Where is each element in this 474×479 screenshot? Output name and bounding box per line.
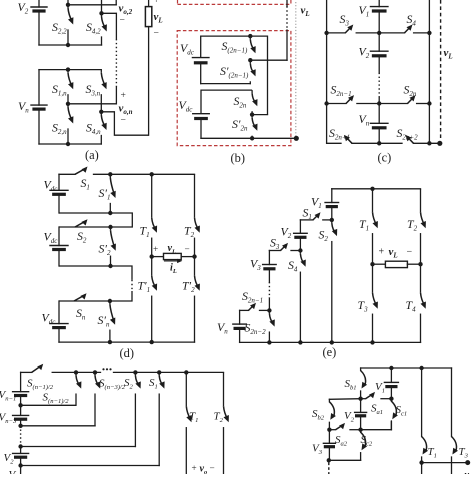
label Vdc module2 (d) xyxy=(44,230,59,246)
switch T3 (g) xyxy=(452,368,459,474)
switch T1 (g) xyxy=(422,368,429,474)
caption (e) xyxy=(323,345,337,359)
wire bottom rail (e) xyxy=(240,341,421,343)
node output terminal (g) xyxy=(465,460,470,465)
battery V1 (f) cropped xyxy=(9,466,21,479)
label Sc2 (g) xyxy=(361,434,373,448)
label T3 (e) xyxy=(358,298,369,314)
node cell-n left-leg midpoint xyxy=(66,102,70,106)
label Vn (c) xyxy=(359,112,370,128)
node S(n-3)/2 top (f) xyxy=(93,370,97,374)
node T1 top (f) xyxy=(184,370,188,374)
switch T1 (e) xyxy=(373,189,378,264)
label Vn (e) xyxy=(217,320,228,336)
switch S'2 (d) xyxy=(111,227,116,266)
label S2,2 xyxy=(52,20,67,36)
label T1 (f) xyxy=(189,411,198,425)
label T2 (e) xyxy=(407,217,418,233)
switch T2 (e) xyxy=(421,189,426,264)
label V(n-1) (f) xyxy=(0,389,16,403)
label S3,n xyxy=(86,82,101,98)
switch S2n-1 (e) xyxy=(249,303,257,311)
label + vL - (d) xyxy=(153,243,190,256)
label S2n-2 (e) xyxy=(245,321,267,337)
switch S2 (f) xyxy=(135,372,140,446)
node cell-n top junction xyxy=(66,67,70,71)
node load junctions (e) xyxy=(370,262,422,266)
label S1,n xyxy=(52,82,67,98)
node cell-n bottom junction xyxy=(66,142,70,146)
node bottom rail junctions (e) xyxy=(267,340,375,344)
label T1 (g) xyxy=(428,446,437,460)
switch S2n-2 (e) xyxy=(269,310,274,342)
wire bottom rail (d) xyxy=(59,341,195,343)
load resistor vL circuit (a) xyxy=(145,0,151,135)
switch S4 (c) xyxy=(405,25,413,33)
label S'n (d) xyxy=(98,313,110,329)
label + vL - load (a) xyxy=(154,0,163,39)
switch S2n-1 (c) xyxy=(346,95,354,103)
node V1 bottom (e) xyxy=(330,218,334,222)
label T'1 (d) xyxy=(138,279,151,295)
svg-text:(e): (e) xyxy=(323,345,337,359)
circuit (d) cascaded cells with H-bridge xyxy=(0,0,1,1)
svg-text:(d): (d) xyxy=(120,346,134,360)
label T'2 (d) xyxy=(182,279,195,295)
label S'1 (d) xyxy=(99,186,111,202)
node output terminal (b) xyxy=(294,136,299,141)
wire tap link (n-3) (f) xyxy=(21,425,95,427)
battery Vn (e) xyxy=(233,310,247,342)
wire module1 top rail (b) xyxy=(201,36,268,115)
svg-text:+: + xyxy=(379,247,385,258)
load rail + resistor vL (d) xyxy=(152,253,195,259)
switch S(n-1)/2 (f) xyxy=(32,364,44,373)
label S2,n xyxy=(52,121,67,137)
label V1 (e) xyxy=(311,195,322,211)
label S2n+1 (c) xyxy=(329,126,350,142)
switch Sb1 (g) xyxy=(361,368,368,399)
node S'2 bottom (d) xyxy=(108,264,112,268)
node tap 1 (f) xyxy=(18,463,22,467)
switch S1,n xyxy=(68,70,73,104)
node load rail junctions (d) xyxy=(150,254,197,258)
svg-text:−: − xyxy=(210,463,215,473)
circuit (a) cascaded H-bridge inverter xyxy=(0,0,1,1)
label V2 (c) xyxy=(359,45,370,61)
label vL (b) xyxy=(301,5,310,19)
label Vdc module n (d) xyxy=(42,311,57,327)
circuit (b) cascaded half-bridge modules xyxy=(0,0,1,1)
label S'(2n-1) xyxy=(220,64,249,80)
wire S2n-1 step rail (e) xyxy=(240,309,270,311)
label V3 (g) xyxy=(312,443,323,457)
wire dotted continuation (e) xyxy=(268,282,270,310)
node bottom rail junctions (d) xyxy=(108,340,154,344)
caption (c) xyxy=(378,151,392,165)
node S'1 bottom (d) xyxy=(108,211,112,215)
switch T'1 (d) xyxy=(152,257,157,343)
battery V2 (g) xyxy=(355,399,367,430)
switch T1 (f) xyxy=(186,372,191,474)
svg-text:−: − xyxy=(154,28,159,39)
battery Vn (cell n) xyxy=(31,70,47,144)
switch S1 (f) xyxy=(159,372,164,465)
label S2 (f) xyxy=(124,377,134,391)
label Vdc module1 (b) xyxy=(180,41,195,57)
label T3 (g) xyxy=(459,446,469,460)
node cell2 left-leg midpoint xyxy=(66,3,70,7)
switch Sa1 (g) xyxy=(366,392,376,399)
svg-text:−: − xyxy=(120,15,125,26)
battery Vdc module2 (b) xyxy=(193,114,210,139)
wire tap link 2 (f) xyxy=(21,446,136,448)
svg-text:(c): (c) xyxy=(378,151,392,165)
switch S2n+2 (c) xyxy=(406,135,414,143)
label V1 (g) xyxy=(375,381,385,395)
node tap (n-3) (f) xyxy=(18,424,22,428)
svg-text:(a): (a) xyxy=(85,148,99,162)
node S'2 top (d) xyxy=(108,225,112,229)
node mid rail1 junctions (c) xyxy=(324,31,431,35)
node S2 top (f) xyxy=(133,370,137,374)
wire module2 bottom rail + dotted jog (d) xyxy=(59,266,132,301)
circuit (c) ladder multilevel topology xyxy=(0,0,1,1)
label + vo - (f) xyxy=(192,463,215,476)
wire module2 top rail (b) xyxy=(201,90,252,114)
switch S'(2n-1) xyxy=(250,60,255,83)
switch Sn (d) xyxy=(74,293,87,301)
node V1 top (g) xyxy=(389,366,393,370)
node T1 top (g) xyxy=(419,366,423,370)
battery V(n-3) (f) xyxy=(13,405,29,426)
circuit (e) staircase multilevel with H-bridge xyxy=(0,0,1,1)
label S'(n-1)/2 (f) xyxy=(43,392,70,406)
switch S1 (d) xyxy=(75,167,88,175)
red dashed module box (lower) xyxy=(177,31,291,146)
switch Sa2 (g) xyxy=(336,423,346,430)
switch T2 (f) xyxy=(224,372,229,474)
wire right rail (c) xyxy=(428,0,430,143)
svg-text:−: − xyxy=(185,244,190,254)
wire module2 bottom rail + output terminal (b) xyxy=(201,137,296,139)
label Sb1 (g) xyxy=(345,378,357,392)
switch S2 (d) xyxy=(75,219,88,227)
wire module2 midpoint link (b) xyxy=(252,114,267,116)
node rail4 junction (g) xyxy=(327,458,331,462)
black dashed measure line vL (c) xyxy=(440,0,442,138)
node Sb1 bottom / V2 top (g) xyxy=(358,397,362,401)
label Vdc module2 (b) xyxy=(179,98,194,114)
node mid rail2 junctions (c) xyxy=(324,101,431,105)
label S1 (d) xyxy=(81,176,90,192)
label Vdc module1 (d) xyxy=(44,178,59,194)
label Sb2 (g) xyxy=(312,408,325,422)
battery Vdc module1 (d) xyxy=(50,174,68,213)
switch S3,n xyxy=(101,70,106,112)
wire cell-n output- to load xyxy=(101,112,148,135)
wire cell2 output+ rail xyxy=(68,0,116,5)
wire output line vL (b) xyxy=(250,0,287,60)
label S2 (d) xyxy=(77,229,87,245)
label S1 (e) xyxy=(303,206,312,222)
label + vL - (e) xyxy=(379,246,413,260)
node V2 bottom (e) xyxy=(298,248,302,252)
wire Sc2 bottom jog to rail4 (g) xyxy=(329,459,361,461)
wire top rail (f) xyxy=(21,371,224,373)
node S(2n-1) top (b) xyxy=(248,34,252,38)
node cell-n right-leg midpoint xyxy=(99,110,103,114)
node tap 2 (f) xyxy=(18,444,22,448)
switch Sc2 (g) xyxy=(361,430,368,461)
label S2n-1 (e) xyxy=(242,289,263,305)
wire tap link 1 (f) xyxy=(21,465,160,467)
wire module1 bottom rail + jog (d) xyxy=(59,213,132,227)
label T1 (e) xyxy=(359,217,369,233)
load rail + resistor vL (e) xyxy=(373,261,421,267)
label V(n-3) (f) xyxy=(0,412,17,426)
label V3 (e) xyxy=(250,257,261,273)
battery V1 (e) xyxy=(325,189,339,220)
label Sa2 (g) xyxy=(335,434,348,448)
switch S2 (e) xyxy=(332,220,337,343)
battery V2 (f) xyxy=(13,447,29,466)
label V2 xyxy=(18,0,29,16)
wire S1 step rail (e) xyxy=(300,219,331,221)
battery Vdc module n (d) xyxy=(50,301,68,342)
node cell2 bottom junction xyxy=(66,43,70,47)
red dashed module box (upper, cropped) xyxy=(178,0,291,4)
label V1 (c) xyxy=(359,3,370,19)
label S2n (c) xyxy=(404,83,417,99)
label vo,2 output xyxy=(119,3,133,26)
wire dotted continuation left column (f) xyxy=(20,430,22,444)
svg-text:−: − xyxy=(121,115,126,126)
switch S4,n xyxy=(101,112,106,144)
wire dotted cascade link xyxy=(115,39,117,87)
label S(n-3)/2 (f) xyxy=(99,378,126,392)
switch S'2n (b) xyxy=(252,115,257,139)
label T2 (f) xyxy=(214,411,224,425)
battery V3 (g) xyxy=(323,430,335,461)
label S1 (f) xyxy=(149,377,158,391)
node H-bridge top junction (e) xyxy=(370,187,374,191)
switch T4 (e) xyxy=(421,264,426,342)
label S4,2 xyxy=(86,20,101,36)
label Sn (d) xyxy=(76,306,86,322)
battery V1 (c) xyxy=(370,0,388,33)
wire top rail (e) xyxy=(332,188,421,190)
wire mid rail 1 (c) xyxy=(327,32,430,34)
node V3 chain bottom (e) xyxy=(267,308,271,312)
label S4 (e) xyxy=(288,258,298,274)
switch S2,2 xyxy=(68,5,73,45)
switch Sc1 (g) xyxy=(391,399,398,430)
label Sc1 (g) xyxy=(396,404,408,418)
label Sa1 (g) xyxy=(371,403,383,417)
caption (b) xyxy=(231,151,245,165)
label V2 (g) xyxy=(344,410,355,424)
wire left rail (c) xyxy=(326,0,328,143)
wire S3 step rail (e) xyxy=(269,250,300,252)
label S2 (e) xyxy=(319,228,329,244)
label S4 (c) xyxy=(407,12,417,28)
battery V1 (g) xyxy=(384,368,398,399)
node S'1 top (d) xyxy=(108,172,112,176)
label V2 (e) xyxy=(281,225,292,241)
label S'2 (d) xyxy=(99,242,111,258)
switch S2n+1 (c) xyxy=(344,135,352,143)
switch S3 (c) xyxy=(345,25,353,33)
svg-text:+: + xyxy=(192,463,197,473)
label + vo,n output xyxy=(119,90,133,126)
svg-text:−: − xyxy=(407,247,413,258)
battery V2 (cell 2) xyxy=(31,0,47,45)
node V1 bottom (g) xyxy=(389,397,393,401)
svg-text:(b): (b) xyxy=(231,151,245,165)
label S2n (b) xyxy=(234,94,247,110)
battery Vdc module2 (d) xyxy=(50,227,68,266)
node V2 bottom (g) xyxy=(358,428,362,432)
label S2n+2 (c) xyxy=(397,126,419,142)
switch S2n (c) xyxy=(408,95,416,103)
switch S2,n xyxy=(68,104,73,144)
node S'n top (d) xyxy=(108,299,112,303)
node S1 top (f) xyxy=(157,370,161,374)
switch S'1 (d) xyxy=(110,174,115,213)
caption (a) xyxy=(85,148,99,162)
node module2 midpoint (b) xyxy=(250,112,254,116)
wire module1 bottom rail (b) xyxy=(201,83,251,85)
node tap (n-1) (f) xyxy=(18,403,22,407)
switch S3 (e) xyxy=(281,243,289,251)
switch S(2n-1) xyxy=(250,36,255,60)
wire rail3 (g) xyxy=(329,421,391,430)
wire cell2 bottom rail xyxy=(39,44,102,46)
circuit (f) multi-tap selector inverter (cropped) xyxy=(0,0,1,1)
wire rail2 (g) xyxy=(329,398,391,401)
switch S(n-3)/2 (f) xyxy=(95,372,100,425)
node output terminal (c) xyxy=(437,141,442,146)
wire load rail (g) xyxy=(422,462,468,464)
label V2 (f) xyxy=(4,452,15,466)
wire tap link (n-1) (f) xyxy=(21,404,76,406)
caption (d) xyxy=(120,346,134,360)
circuit (g) cascaded bidirectional-switch topology (cropped) xyxy=(0,0,1,1)
wire cell2 output- to cascade xyxy=(102,13,117,39)
wire cell2 right-leg top xyxy=(101,0,103,13)
switch S1 (e) xyxy=(313,212,321,220)
wire dots continuation top rail (f) xyxy=(102,368,111,370)
wire dotted continuation (c) xyxy=(378,73,380,104)
node module2 bottom junction (b) xyxy=(250,136,254,140)
node H-bridge left top (d) xyxy=(150,172,154,176)
wire cell-n output+ link xyxy=(68,87,116,104)
switch T'2 (d) xyxy=(195,257,200,343)
current arrow iL (d) xyxy=(165,259,183,263)
label S2n-1 (c) xyxy=(331,83,352,99)
label iL (d) xyxy=(170,262,177,275)
node bottom rail junctions (c) xyxy=(377,141,432,145)
label S3 (c) xyxy=(340,12,350,28)
wire bottom rail (c) xyxy=(327,142,440,144)
label S(2n-1) xyxy=(222,39,248,55)
label T1 (d) xyxy=(140,224,150,240)
switch S4 (e) xyxy=(300,251,305,343)
switch S4,2 xyxy=(102,13,107,45)
label vL (c) xyxy=(444,47,453,61)
label S3 (e) xyxy=(270,236,280,252)
wire top rail (g) xyxy=(361,367,452,369)
battery V(n-1) (f) xyxy=(13,372,29,405)
svg-text:+: + xyxy=(154,0,159,6)
node module1 midpoint (b) xyxy=(248,58,252,62)
label S'2n (b) xyxy=(232,117,248,133)
node Sb2 bottom / V3 top (g) xyxy=(327,428,331,432)
switch T1 (d) xyxy=(152,174,157,256)
node S'(n-1)/2 top (f) xyxy=(74,370,78,374)
switch T3 (e) xyxy=(373,264,378,342)
wire dashed continuation below (g) xyxy=(328,463,330,475)
switch S'(n-1)/2 (f) xyxy=(76,372,81,405)
wire mid rail 2 (c) xyxy=(327,103,430,105)
battery V3 (e) xyxy=(263,251,277,283)
label T4 (e) xyxy=(406,298,417,314)
switch Sb2 (g) xyxy=(329,399,336,429)
label Vn xyxy=(18,99,29,115)
node cell2 right-leg midpoint xyxy=(99,11,103,15)
node load junction (g) xyxy=(419,460,423,464)
battery Vn (c) xyxy=(370,104,388,144)
battery V2 (c) xyxy=(370,33,388,73)
gray dotted measure line vL (b) xyxy=(295,2,297,136)
label T2 (d) xyxy=(184,224,195,240)
battery Vdc module1 (b) xyxy=(192,58,209,84)
battery V2 (e) xyxy=(294,220,308,251)
label vo (g) cropped xyxy=(465,470,473,479)
label S4,n xyxy=(86,121,101,137)
wire cell-n bottom rail xyxy=(39,143,101,145)
svg-text:+: + xyxy=(153,244,158,254)
switch T2 (d) xyxy=(195,174,200,256)
wire cell-n top rail xyxy=(39,69,101,71)
wire module1 top rail (d) xyxy=(59,173,195,175)
switch S'n (d) xyxy=(110,301,115,342)
label S(n-1)/2 (f) xyxy=(27,378,54,392)
switch S2n (b) xyxy=(252,90,257,115)
svg-text:+: + xyxy=(121,90,126,101)
